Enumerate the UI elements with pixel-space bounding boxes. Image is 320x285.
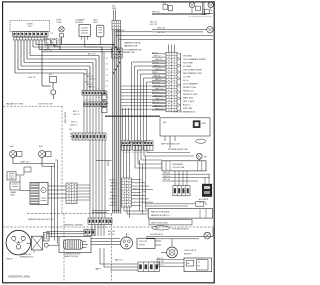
svg-text:VIO 7-11: VIO 7-11 [154, 85, 161, 87]
labels wat fiz [161, 143, 188, 151]
svg-text:WHT 7-2: WHT 7-2 [154, 56, 161, 58]
pin number row under J1 [13, 37, 47, 41]
wires strip bottom down [112, 207, 142, 218]
svg-text:WHT 7-4: WHT 7-4 [73, 114, 80, 116]
svg-text:BLK 7-10: BLK 7-10 [88, 54, 96, 56]
svg-text:ORG 7-2: ORG 7-2 [89, 79, 96, 81]
svg-text:ORG 7-14: ORG 7-14 [154, 95, 162, 97]
label f1 horizon [150, 234, 164, 236]
svg-text:RH AUX DC: RH AUX DC [183, 89, 194, 92]
svg-text:WHT 7-2: WHT 7-2 [133, 188, 139, 190]
labels watl lamp [95, 258, 123, 270]
wires to lamp assembly [100, 248, 138, 270]
svg-text:M: M [42, 190, 44, 192]
start relay cylinder (hatched) [64, 240, 89, 249]
wires into water valve box [140, 211, 148, 214]
svg-text:7-7: 7-7 [106, 86, 108, 88]
wires below enclosure [165, 136, 175, 148]
wire jog to section edge [96, 152, 112, 166]
svg-text:P11: P11 [163, 3, 166, 5]
svg-text:GRT 'L' AUX: GRT 'L' AUX [183, 100, 195, 103]
svg-text:SW: SW [49, 74, 52, 76]
junction dots on harness [113, 44, 121, 74]
svg-text:7-3: 7-3 [106, 64, 108, 66]
svg-text:LAMP 7: LAMP 7 [95, 268, 101, 271]
svg-text:WASHING LINE (S): WASHING LINE (S) [124, 42, 141, 45]
svg-text:BRN 7-18: BRN 7-18 [155, 109, 162, 111]
svg-text:BRN 7-6: BRN 7-6 [89, 87, 95, 89]
water valve assembly [75, 19, 90, 47]
svg-text:DR: DR [205, 204, 208, 206]
connector cluster 1 [122, 141, 132, 150]
small circle pilot [44, 243, 48, 247]
svg-text:LIGHT 7-10: LIGHT 7-10 [20, 161, 29, 163]
wire feeders lower from harness [121, 86, 166, 109]
wire feeders into P1 column [152, 52, 166, 110]
svg-text:BLK 7-10: BLK 7-10 [117, 30, 125, 32]
compressor shell (big circle) [6, 230, 31, 255]
svg-text:7-2: 7-2 [106, 58, 108, 60]
wires guard light [20, 171, 30, 191]
wire staircase from control connector [15, 40, 99, 91]
svg-text:HMI VLV WTR VLV(S): HMI VLV WTR VLV(S) [151, 222, 168, 224]
svg-text:ORG 7-3: ORG 7-3 [155, 59, 162, 61]
label washing line [124, 42, 141, 48]
svg-text:WAT'L 7-8: WAT'L 7-8 [115, 258, 123, 261]
lamp dispenser panel [196, 153, 207, 160]
svg-text:DC/I-CHAMBER: DC/I-CHAMBER [183, 82, 198, 85]
svg-text:SET: SET [204, 156, 207, 158]
svg-text:ORG 7-34: ORG 7-34 [157, 27, 165, 29]
svg-text:PNK 7-55: PNK 7-55 [157, 32, 164, 34]
svg-text:RECOMMEND CTRL: RECOMMEND CTRL [183, 73, 203, 75]
svg-text:AUX DC: AUX DC [183, 103, 191, 106]
wire bus line y49.4 [39, 40, 113, 50]
vertical section divider x111 [111, 214, 113, 281]
svg-text:GUARD: GUARD [10, 191, 17, 194]
svg-text:WTR: WTR [112, 8, 117, 10]
cabinet harness connector [88, 218, 112, 224]
wires across top compressor [46, 232, 84, 234]
svg-text:BLK 7-1: BLK 7-1 [152, 52, 158, 54]
svg-text:DETECT LINE: DETECT LINE [183, 87, 197, 89]
labels in enclosure [163, 121, 206, 125]
wires enclosure to overload [91, 239, 120, 245]
section labels harness motor/cabinet [28, 218, 84, 227]
svg-text:F2 INSTALLATION LINE: F2 INSTALLATION LINE [168, 148, 188, 151]
wire J1 pin7 to bundle [33, 40, 102, 91]
svg-text:GRY 7-2: GRY 7-2 [71, 122, 77, 124]
connector on top wires [84, 229, 95, 235]
svg-text:7-4: 7-4 [106, 69, 108, 71]
svg-text:WHT 7-12: WHT 7-12 [155, 89, 163, 91]
connector cluster 3 [144, 141, 154, 150]
svg-text:GRY 7-3: GRY 7-3 [87, 84, 93, 86]
door switch right [39, 146, 51, 157]
wire bundle center drop x122-148 [123, 108, 129, 141]
svg-text:RED 7-7: RED 7-7 [110, 205, 117, 207]
svg-text:HARNESS-AUGER MOTOR: HARNESS-AUGER MOTOR [28, 218, 54, 221]
wire bundle cabinet drop [90, 140, 105, 218]
svg-text:CABINET LINE: CABINET LINE [123, 51, 135, 54]
heavy feed line y116 [105, 115, 160, 117]
wires above valve box [145, 202, 208, 207]
wire BLK 7-10 right [116, 30, 153, 32]
wire bus line y51.8 [42, 40, 113, 52]
lamp top-right B [208, 2, 213, 9]
svg-text:BLK 7-1: BLK 7-1 [110, 179, 116, 181]
wire labels along bundle [71, 74, 95, 127]
svg-text:P2: P2 [51, 33, 53, 35]
compressor enclosure [59, 237, 91, 253]
page border frame [3, 2, 215, 283]
fan lines P1 to bracket [177, 54, 181, 111]
svg-text:YEL 7-4: YEL 7-4 [152, 62, 158, 64]
tiny labels between bars [85, 98, 101, 100]
thermostat stack [102, 94, 107, 112]
wire harness top leads [114, 10, 116, 21]
svg-text:7-10: 7-10 [106, 103, 109, 105]
bracket line right of P1 [180, 53, 182, 112]
tick labels along harness [106, 58, 109, 105]
auger/mixer motor block [30, 183, 48, 205]
svg-text:7-5: 7-5 [106, 75, 108, 77]
svg-text:BLK 7-13: BLK 7-13 [152, 92, 159, 94]
svg-text:P13: P13 [28, 26, 31, 28]
wire to door switch [42, 52, 51, 86]
svg-text:VARIABILITY TIME: VARIABILITY TIME [6, 103, 24, 106]
svg-text:DEFROST RUN: DEFROST RUN [183, 94, 198, 96]
inline connector bar A [82, 91, 106, 96]
svg-text:ORG 7-9: ORG 7-9 [110, 186, 117, 188]
svg-text:YEL 7-5: YEL 7-5 [85, 81, 91, 83]
wires motor to connector [48, 186, 66, 198]
wire left sensor drop [103, 52, 105, 94]
svg-text:GROUND: GROUND [183, 55, 192, 57]
svg-text:DOOR SW LINE: DOOR SW LINE [38, 104, 53, 106]
lamp assembly connector [138, 262, 160, 272]
wires into actuator [205, 174, 209, 184]
pill 4 spl [152, 226, 170, 230]
labels left of strip P14 [110, 179, 118, 207]
wire drops to water valve box [140, 156, 149, 214]
svg-text:4 SPLICE HARNESS (S): 4 SPLICE HARNESS (S) [174, 111, 195, 114]
aux connector P5 P9 (dashed) [45, 39, 59, 46]
wires to terminal box [156, 258, 184, 267]
svg-text:BLK 7-52: BLK 7-52 [150, 24, 157, 26]
svg-text:EXPANSION VLV: EXPANSION VLV [20, 255, 34, 258]
svg-text:BLU 7-4: BLU 7-4 [111, 202, 117, 204]
connector P11 pair [163, 3, 172, 11]
small terminal box [44, 232, 50, 241]
svg-text:AC: AC [187, 262, 190, 265]
wire long run y35.4 [116, 34, 214, 36]
svg-text:L1 LINE: L1 LINE [183, 76, 191, 78]
svg-text:MTR: MTR [94, 22, 99, 24]
wire bus line y44.6 [36, 40, 113, 45]
wire divider pair top right [202, 2, 204, 15]
svg-text:FF TEMP: FF TEMP [183, 66, 192, 68]
label central oil [20, 253, 34, 259]
wire label GRY 7-54 [44, 49, 52, 51]
wire drops clusters to strip [124, 145, 195, 178]
vertical section divider x62 [62, 106, 66, 213]
svg-text:RED 7-8: RED 7-8 [154, 75, 161, 77]
signal name list [183, 55, 206, 110]
svg-text:ORG 7-7: ORG 7-7 [71, 125, 78, 127]
wire drops to connector [175, 171, 187, 186]
slim box hmi vlv [149, 220, 192, 225]
wire labels WIO/BLK [150, 21, 157, 26]
svg-text:WHT 7-9: WHT 7-9 [87, 76, 94, 78]
label f2 horizon [172, 228, 189, 230]
svg-text:CO: CO [198, 262, 201, 264]
svg-text:CAPACITOR LINE: CAPACITOR LINE [64, 255, 79, 258]
svg-text:CUT-OUT LINE: CUT-OUT LINE [173, 167, 186, 169]
label P2 [51, 33, 53, 35]
connector cluster 2 [133, 141, 143, 150]
svg-text:ACTUATOR: ACTUATOR [199, 198, 209, 201]
label 4 spl harness [123, 49, 142, 55]
section divider line - harness mixer motor [27, 213, 112, 215]
labels right of strip [133, 188, 146, 197]
labels black red [108, 231, 115, 236]
dispenser control enclosure [160, 118, 210, 136]
tiny pin row right [189, 16, 212, 18]
wires below cabinet connector [92, 224, 104, 236]
wires to dispenser lamp [152, 27, 204, 34]
door switch SW3 with plunger [49, 74, 57, 99]
wire bus top right [152, 13, 213, 14]
label P25 harness top [112, 5, 117, 10]
actuator module (dark) [202, 184, 212, 197]
door switch left [10, 146, 22, 157]
splice connector bar C [72, 133, 106, 140]
svg-text:4 SPL HARNESS LINE: 4 SPL HARNESS LINE [123, 49, 142, 52]
svg-text:TWO-SPEED DRIVE: TWO-SPEED DRIVE [183, 69, 202, 71]
svg-text:PNK 7-5: PNK 7-5 [110, 199, 116, 201]
svg-text:7-8: 7-8 [106, 92, 108, 94]
svg-text:WAT'L 14 SPLICE (S): WAT'L 14 SPLICE (S) [129, 141, 147, 144]
oval dispenser tag [196, 139, 206, 143]
label wat'l 14 splice [129, 141, 147, 144]
svg-text:AUX: AUX [163, 121, 167, 124]
svg-text:RED 7-17: RED 7-17 [154, 105, 161, 107]
svg-text:HARNESS-CABINET: HARNESS-CABINET [64, 224, 84, 227]
tie lines above cabinet connector [92, 211, 110, 213]
svg-text:P9: P9 [52, 42, 54, 44]
svg-text:P5: P5 [47, 42, 49, 44]
wires f2 horizon bus [146, 228, 213, 239]
filter box [137, 238, 161, 248]
guard light box [10, 182, 20, 196]
svg-text:F2 HORIZON IN 94: F2 HORIZON IN 94 [172, 228, 189, 230]
svg-text:HARNESS WTR ACT LIT: HARNESS WTR ACT LIT [151, 214, 170, 217]
svg-text:7-6: 7-6 [106, 80, 108, 82]
label condenser fan [184, 250, 197, 255]
svg-text:BRN 7-52: BRN 7-52 [163, 172, 170, 174]
wires from P5/P9 [48, 38, 60, 50]
dispenser assembly box [162, 161, 206, 171]
section labels above divider [6, 103, 53, 106]
junction box small [24, 167, 31, 172]
svg-text:YEL 7-56: YEL 7-56 [163, 179, 170, 181]
wire components to harness [62, 45, 114, 47]
lamp dispenser right [204, 27, 214, 33]
wire bundle between bars [84, 95, 102, 102]
svg-text:CENTRAL OIL: CENTRAL OIL [20, 253, 31, 256]
wires connector grid to cabinet bundle [77, 185, 90, 200]
svg-text:BLK 7-8: BLK 7-8 [29, 77, 36, 79]
svg-text:4 SPL: 4 SPL [155, 228, 159, 230]
svg-text:DC (+): DC (+) [183, 80, 189, 82]
svg-text:LIGHT: LIGHT [57, 22, 63, 24]
svg-text:SPL: SPL [69, 129, 72, 131]
svg-text:BLU 7-10: BLU 7-10 [152, 82, 159, 84]
svg-text:GRY 7-54: GRY 7-54 [44, 49, 52, 51]
svg-text:TWO-CHAMBER SPEED: TWO-CHAMBER SPEED [183, 58, 206, 61]
svg-text:FAN MTR: FAN MTR [184, 253, 192, 256]
svg-text:LIGHT: LIGHT [10, 194, 15, 196]
connector J1 on control board [13, 32, 48, 37]
terminal block A [196, 6, 201, 10]
svg-text:CON 7-88: CON 7-88 [139, 241, 147, 243]
lamp machine compartment [204, 232, 211, 239]
wire bundle bars to splice [84, 107, 102, 133]
svg-text:RED 7-8: RED 7-8 [157, 258, 163, 260]
wire label BLK 7-8 [29, 77, 36, 79]
label actuator [199, 198, 209, 204]
svg-text:7-9: 7-9 [106, 97, 108, 99]
svg-text:HI-LT: HI-LT [10, 146, 14, 148]
wire long run y39.4 [119, 38, 213, 40]
section divider line - machine compartment [3, 226, 214, 228]
condenser fan motor (double circle) [161, 239, 177, 258]
lamp top-right A [189, 2, 194, 13]
tiny labels under clusters [123, 151, 150, 153]
wires expansion area [27, 236, 60, 253]
svg-text:HI-LT: HI-LT [39, 146, 43, 148]
inline connector bar B [84, 102, 107, 107]
connector grid motor [66, 183, 77, 204]
svg-text:FILTER: FILTER [139, 244, 145, 246]
svg-text:FILL VLV: FILL VLV [199, 202, 207, 204]
wire bundle - main harness verticals [113, 30, 121, 214]
inline connector P25 [112, 20, 121, 29]
wire pilot to enclosure [43, 241, 60, 245]
svg-text:4: 4 [71, 125, 72, 127]
label compressor run [64, 254, 81, 259]
svg-text:F1 HORIZON LN: F1 HORIZON LN [150, 234, 164, 236]
wires door switches [13, 157, 55, 166]
svg-text:TT: TT [210, 11, 212, 13]
auger motor [94, 19, 104, 45]
svg-text:YEL 7-16: YEL 7-16 [152, 102, 159, 104]
svg-text:HTR LINE: HTR LINE [183, 108, 193, 110]
svg-text:WIO 7-21: WIO 7-21 [150, 21, 157, 23]
svg-text:BLK 7-63: BLK 7-63 [108, 231, 115, 233]
svg-text:WAT'L AUX: WAT'L AUX [183, 96, 194, 99]
svg-text:GND: GND [202, 123, 207, 125]
dispenser connector block [173, 186, 190, 196]
fan wires from strip P14 right [131, 180, 153, 206]
svg-text:PNK 7-34: PNK 7-34 [152, 11, 159, 13]
relay box left [7, 172, 24, 180]
expansion box with X [32, 236, 43, 250]
terminal box AC COND [184, 258, 212, 272]
svg-text:WAT VLV WTR VALVE: WAT VLV WTR VALVE [151, 210, 170, 213]
svg-text:GRN 7-15: GRN 7-15 [155, 99, 163, 101]
svg-text:DISPENSER: DISPENSER [173, 164, 184, 166]
svg-text:BLK 7-8: BLK 7-8 [85, 74, 91, 76]
splice label [69, 125, 72, 136]
board connector P1 column [166, 52, 177, 112]
svg-text:BLK 7-1: BLK 7-1 [73, 111, 79, 113]
inline connector on harness y48 [112, 48, 122, 58]
caption horizontal view [8, 276, 31, 279]
svg-text:YEL 7-8: YEL 7-8 [110, 192, 116, 194]
dark module in enclosure [193, 120, 201, 128]
wire label BLK 7-10 [88, 54, 96, 56]
svg-text:FRZ TEMP: FRZ TEMP [183, 62, 194, 64]
wires into P1 top [169, 45, 175, 53]
svg-text:HORIZONTAL VIEW: HORIZONTAL VIEW [8, 276, 31, 279]
svg-text:HARNESS LINE: HARNESS LINE [124, 44, 138, 47]
svg-text:ND: ND [198, 265, 201, 267]
svg-text:WHT 7-6: WHT 7-6 [111, 183, 118, 185]
overload/PTC circle [121, 233, 133, 249]
wire label PNK 7-34 [152, 11, 159, 13]
section divider line - cavity/variability zone [3, 105, 62, 107]
label one 1/4 [6, 258, 13, 260]
water valve box [148, 209, 213, 218]
wire nested corners to P1 [132, 62, 167, 141]
lamp FF/FZ light [57, 20, 65, 45]
svg-text:BRN 7-2: BRN 7-2 [111, 195, 118, 197]
vertical section divider x64 bottom [63, 214, 65, 281]
svg-text:ORG 7-55: ORG 7-55 [163, 176, 170, 178]
wire drops to compressor zone [52, 160, 58, 244]
svg-text:ORG 7-9: ORG 7-9 [133, 195, 139, 197]
control board P13 (dashed) [10, 20, 50, 31]
wires under dispenser box [162, 172, 210, 181]
svg-text:CON'L FLR OR: CON'L FLR OR [184, 250, 197, 252]
svg-text:GRY 7-3: GRY 7-3 [111, 189, 118, 191]
svg-text:RED 7-8: RED 7-8 [108, 234, 114, 236]
label 4 splice harness [174, 111, 195, 114]
terminal block B [205, 9, 213, 14]
cabinet connector strip P14 [122, 178, 131, 207]
svg-text:VLV WTR: VLV WTR [75, 22, 84, 24]
svg-text:ONE 1/4: ONE 1/4 [6, 258, 13, 260]
svg-text:WAT FIZ ROOM DOOR: WAT FIZ ROOM DOOR [161, 143, 181, 146]
svg-text:DOOR SIDE: DOOR SIDE [64, 112, 66, 124]
